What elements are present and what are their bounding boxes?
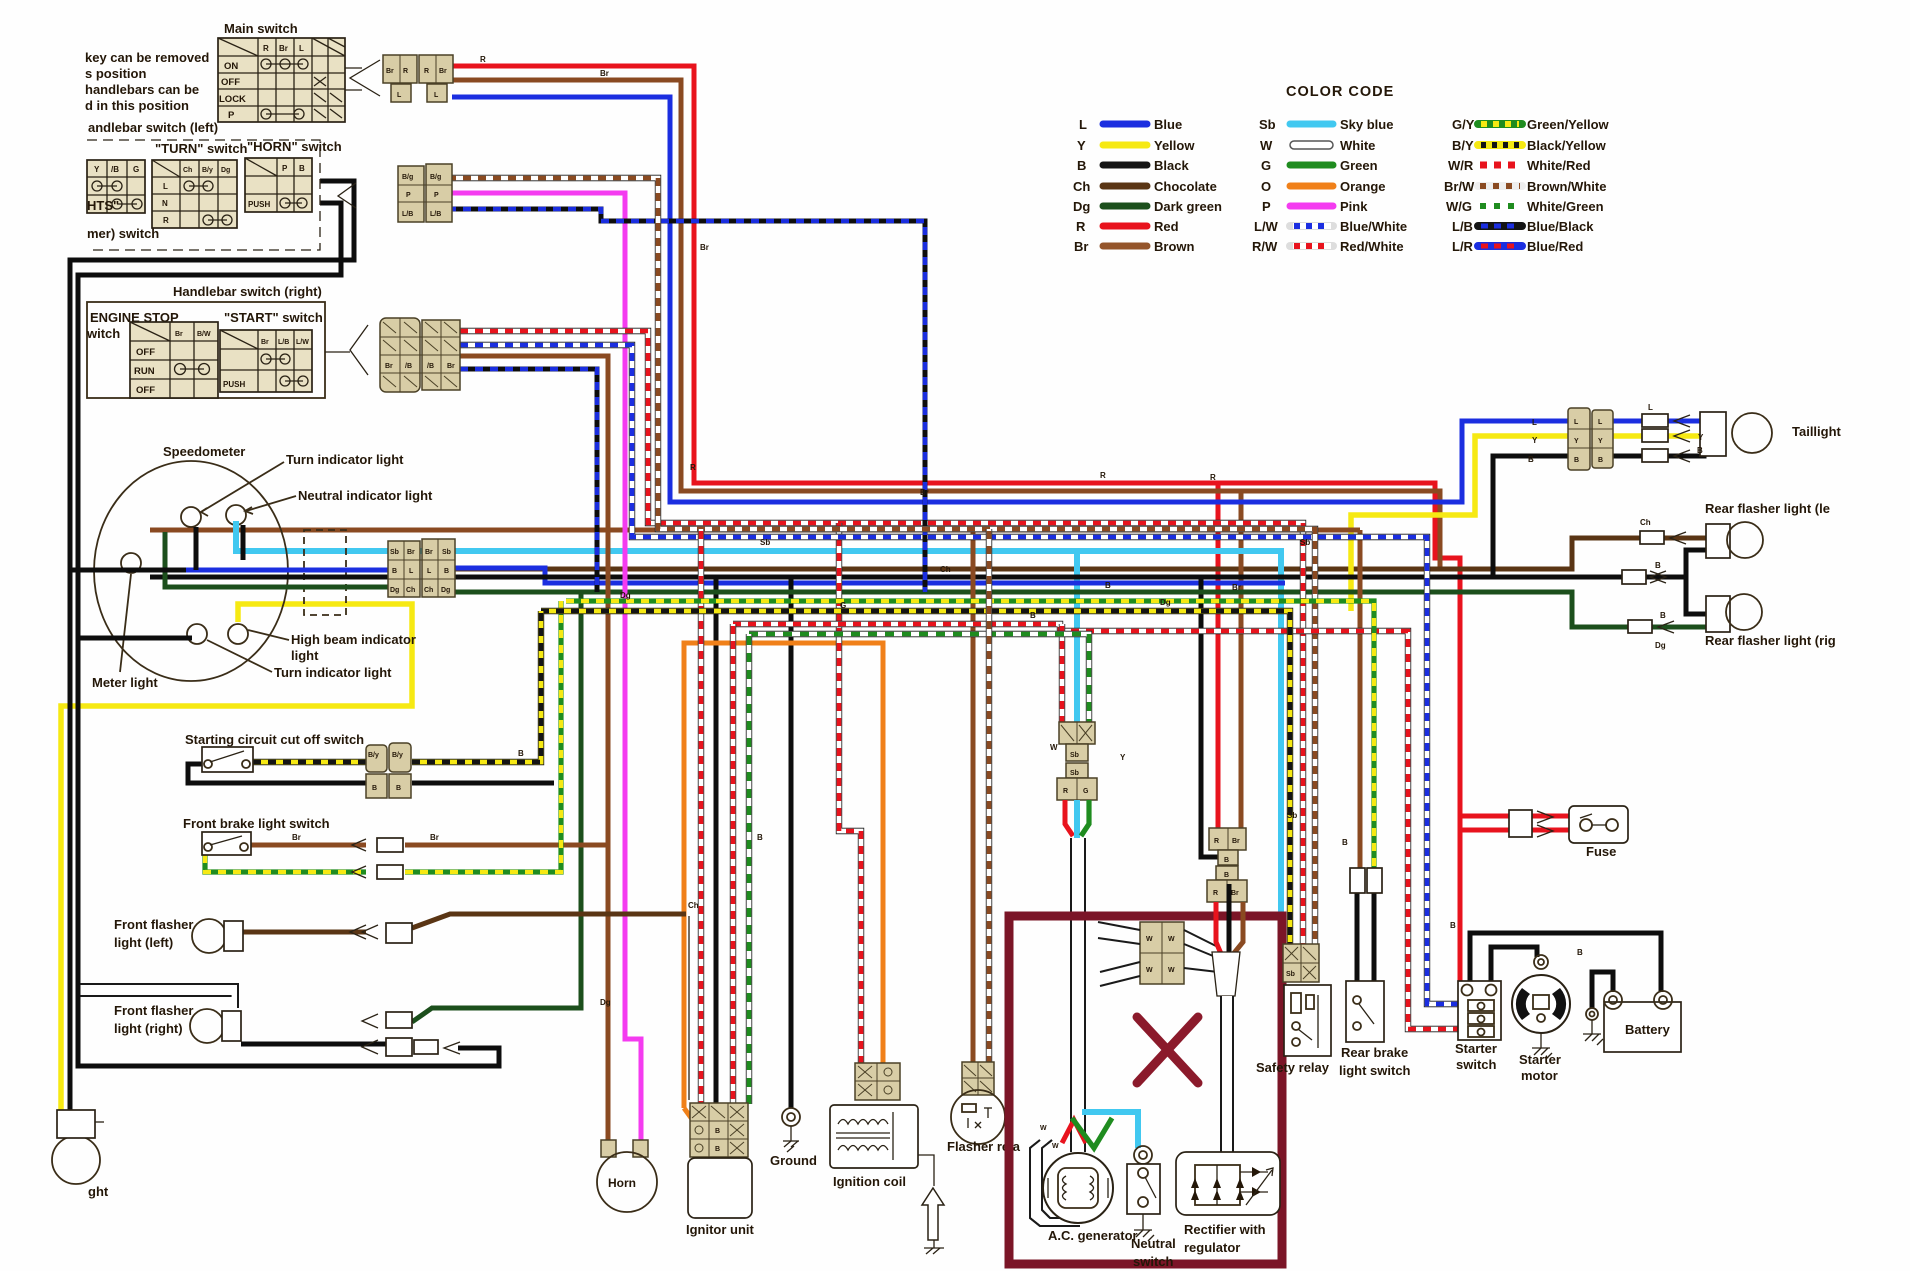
wire W/G drop to ignitor — [746, 634, 752, 1104]
wire yellow taillight feed — [1351, 436, 1568, 611]
svg-text:G: G — [1083, 788, 1089, 795]
wire black starter motor link — [1491, 947, 1537, 981]
svg-text:L/W: L/W — [296, 339, 309, 346]
wire brown drop to generator-box connector Br — [1239, 491, 1244, 831]
svg-text:W: W — [1146, 967, 1153, 974]
black lead into box bundle — [1227, 884, 1232, 952]
svg-text:Dg: Dg — [1073, 199, 1090, 214]
svg-text:G: G — [133, 165, 139, 174]
svg-text:RUN: RUN — [134, 366, 155, 377]
svg-text:Br: Br — [425, 549, 433, 556]
svg-text:Starter: Starter — [1519, 1052, 1561, 1067]
svg-text:Blue/White: Blue/White — [1340, 219, 1407, 234]
svg-text:B: B — [1450, 921, 1456, 930]
svg-text:Ground: Ground — [770, 1153, 817, 1168]
svg-text:Br: Br — [386, 68, 394, 75]
wire dark green drop to front flasher right — [412, 592, 581, 1022]
wire orange ignition feed — [684, 643, 883, 1108]
svg-text:Rear brake: Rear brake — [1341, 1045, 1408, 1060]
wire black starting circuit lower — [188, 764, 366, 783]
svg-text:Ch: Ch — [424, 587, 433, 594]
svg-text:B: B — [1077, 158, 1086, 173]
wire L/B start switch — [460, 369, 597, 592]
svg-text:L/B: L/B — [1452, 219, 1473, 234]
spark plug lead — [918, 1155, 934, 1186]
handlebar switch (right) box — [87, 302, 325, 398]
svg-text:Neutral: Neutral — [1131, 1236, 1176, 1251]
svg-text:Dg: Dg — [600, 998, 611, 1007]
svg-text:Brown: Brown — [1154, 239, 1195, 254]
ignitor connector — [690, 1103, 748, 1157]
svg-text:Horn: Horn — [608, 1176, 636, 1190]
engine stop table — [130, 322, 218, 398]
A.C. generator — [1043, 1153, 1113, 1223]
main switch table — [218, 38, 345, 122]
svg-text:Chocolate: Chocolate — [1154, 179, 1217, 194]
svg-text:B: B — [1574, 457, 1579, 464]
headlight bulb — [52, 1136, 100, 1184]
front brake connectors — [352, 0, 906, 879]
fuse connector — [1509, 810, 1532, 837]
svg-text:Y: Y — [1698, 433, 1704, 442]
svg-text:L: L — [163, 182, 168, 191]
svg-text:COLOR CODE: COLOR CODE — [1286, 84, 1394, 100]
wire black front flasher right lead — [241, 1042, 386, 1047]
generator-box R/Br connector stack — [1207, 828, 1247, 902]
brown lead into box bundle — [1230, 902, 1243, 958]
svg-text:Starter: Starter — [1455, 1041, 1497, 1056]
svg-text:Orange: Orange — [1340, 179, 1386, 194]
speedometer black lead — [150, 575, 388, 580]
rear flasher connector chocolate — [1640, 531, 1664, 544]
svg-text:Rear flasher light (le: Rear flasher light (le — [1705, 501, 1830, 516]
svg-text:Meter light: Meter light — [92, 675, 158, 690]
svg-text:motor: motor — [1521, 1068, 1558, 1083]
svg-text:Black: Black — [1154, 158, 1189, 173]
rear flasher connector green — [1628, 620, 1652, 633]
svg-text:White/Green: White/Green — [1527, 199, 1604, 214]
wire Br/W drop to flasher relay — [986, 529, 992, 1062]
front flasher right connectors — [362, 1012, 460, 1056]
svg-text:B: B — [1598, 457, 1603, 464]
front flasher left connector — [350, 923, 412, 943]
wire chocolate bus to rear flasher light (left) — [455, 538, 1640, 569]
wire R/W drop to ignitor 2 — [730, 624, 736, 1104]
wire red drop to generator-box connector R — [1216, 483, 1221, 831]
svg-text:Ignition coil: Ignition coil — [833, 1174, 906, 1189]
svg-text:switch: switch — [1456, 1057, 1497, 1072]
taillight bulb — [1700, 412, 1726, 456]
ground symbol — [782, 1108, 800, 1152]
wire dark green bus to rear flasher light (right) — [455, 592, 1628, 627]
wire B/Y bus to safety relay — [541, 611, 1290, 944]
neutral switch — [1127, 1146, 1160, 1241]
ignition coil — [830, 1105, 918, 1168]
svg-text:R: R — [1063, 788, 1068, 795]
svg-text:Br: Br — [1232, 838, 1240, 845]
svg-text:L: L — [1598, 419, 1603, 426]
svg-text:Ch: Ch — [688, 901, 699, 910]
svg-text:G/Y: G/Y — [1452, 117, 1475, 132]
wire black bus — [455, 575, 1622, 580]
svg-text:P: P — [228, 110, 235, 121]
svg-text:Ignitor unit: Ignitor unit — [686, 1222, 755, 1237]
black to high-beam bulbs from left verticals — [70, 568, 186, 573]
wire blue speedometer bus — [455, 568, 1285, 583]
svg-text:"HORN" switch: "HORN" switch — [247, 139, 342, 154]
horn — [597, 1152, 657, 1212]
wire black taillight — [1493, 456, 1568, 578]
wire brown engine-stop switch to horn vertical — [460, 356, 608, 1140]
wire pink horn feed — [448, 193, 641, 1140]
svg-text:B/g: B/g — [402, 174, 413, 181]
white loop around generator — [1030, 1140, 1080, 1226]
turn indicator light bulb — [181, 507, 201, 527]
svg-text:Sb: Sb — [1287, 811, 1297, 820]
svg-text:W: W — [1168, 936, 1175, 943]
svg-text:B: B — [1528, 455, 1534, 464]
svg-text:W: W — [1040, 1125, 1047, 1132]
svg-text:Dg: Dg — [441, 587, 450, 594]
svg-text:Br: Br — [407, 549, 415, 556]
svg-text:d in this position: d in this position — [85, 98, 189, 113]
wire chocolate front flasher left link — [243, 930, 366, 935]
svg-text:Dg: Dg — [620, 591, 631, 600]
svg-text:OFF: OFF — [136, 385, 155, 396]
svg-text:White/Red: White/Red — [1527, 158, 1591, 173]
svg-text:Y: Y — [1574, 438, 1579, 445]
starting circuit connector pair — [366, 743, 411, 798]
svg-text:Sb: Sb — [760, 538, 770, 547]
svg-text:R: R — [163, 216, 169, 225]
svg-text:L/R: L/R — [1452, 239, 1474, 254]
svg-text:Ch: Ch — [406, 587, 415, 594]
svg-text:R: R — [263, 44, 269, 53]
sky blue stub below connector — [1074, 800, 1080, 840]
wire brown rear brake drop — [1358, 530, 1363, 870]
svg-text:Br: Br — [1074, 239, 1088, 254]
svg-text:Y: Y — [1532, 436, 1538, 445]
svg-text:Br: Br — [175, 331, 183, 338]
svg-text:L/B: L/B — [278, 339, 289, 346]
wire L/W start switch to starter switch — [460, 345, 1459, 1004]
green zigzag at generator — [1072, 1118, 1112, 1148]
rear brake connector bits — [1350, 868, 1365, 893]
svg-text:B: B — [1660, 611, 1666, 620]
svg-text:Green/Yellow: Green/Yellow — [1527, 117, 1610, 132]
lights dimmer partial table — [87, 160, 145, 213]
wire G/Y front brake branch — [205, 855, 366, 872]
wire W/G bus — [749, 634, 1089, 724]
svg-text:Y: Y — [94, 165, 100, 174]
sky blue stub from neutral bulb — [233, 521, 239, 551]
taillight connector — [1568, 408, 1613, 470]
svg-text:key can be removed: key can be removed — [85, 50, 209, 65]
svg-text:mer) switch: mer) switch — [87, 226, 159, 241]
svg-text:B: B — [1577, 948, 1583, 957]
wire black starter circuit bus — [1470, 933, 1661, 992]
svg-text:Dg: Dg — [221, 167, 230, 174]
wire brown bus (speedometer) — [150, 528, 1360, 533]
svg-text:R/W: R/W — [1252, 239, 1278, 254]
svg-text:light switch: light switch — [1339, 1063, 1411, 1078]
svg-text:/B: /B — [111, 165, 119, 174]
svg-text:handlebars can be: handlebars can be — [85, 82, 199, 97]
speedometer wires: blue — [141, 568, 388, 573]
svg-text:Br: Br — [600, 69, 609, 78]
wire brown front brake light switch — [251, 843, 366, 848]
speedometer black inner stubs — [194, 527, 199, 570]
svg-text:OFF: OFF — [136, 347, 155, 358]
horn connectors — [601, 1140, 616, 1157]
svg-text:Front flasher: Front flasher — [114, 917, 193, 932]
wire R/W lower bus to starter switch — [733, 624, 1459, 1029]
svg-text:light (left): light (left) — [114, 935, 173, 950]
svg-text:L: L — [409, 568, 414, 575]
wire white headlamp dimmer — [80, 984, 238, 1008]
svg-text:Y: Y — [1077, 138, 1086, 153]
svg-text:B/y: B/y — [202, 167, 213, 174]
battery ground — [1583, 1008, 1603, 1045]
svg-text:L/B: L/B — [430, 211, 441, 218]
handlebar-right connector — [325, 318, 460, 392]
svg-text:R: R — [1214, 838, 1219, 845]
svg-text:W: W — [1146, 936, 1153, 943]
svg-text:Taillight: Taillight — [1792, 424, 1842, 439]
wire brown drop to flasher relay — [971, 530, 976, 1062]
svg-text:Br: Br — [447, 363, 455, 370]
svg-text:Front flasher: Front flasher — [114, 1003, 193, 1018]
svg-text:Blue/Black: Blue/Black — [1527, 219, 1594, 234]
svg-text:Dg: Dg — [1160, 598, 1171, 607]
svg-text:L: L — [434, 92, 439, 99]
svg-text:B: B — [1342, 838, 1348, 847]
speedometer connector blocks — [388, 539, 455, 597]
svg-text:P: P — [1262, 199, 1271, 214]
svg-text:B: B — [715, 1146, 720, 1153]
svg-text:Br: Br — [261, 339, 269, 346]
svg-text:R: R — [424, 68, 429, 75]
wire black rear brake switch leads — [1355, 893, 1360, 981]
svg-text:B: B — [299, 164, 305, 173]
wire red main switch feed: main switch to fuse/starter — [452, 66, 1470, 990]
svg-text:Front brake light switch: Front brake light switch — [183, 816, 330, 831]
wire black rear flasher junction — [1645, 550, 1706, 577]
svg-text:Br/W: Br/W — [1444, 179, 1475, 194]
svg-text:O: O — [1261, 179, 1271, 194]
wire brown main switch: to chocolate bus and rear flasher left — [452, 80, 1440, 569]
svg-text:Red/White: Red/White — [1340, 239, 1404, 254]
svg-text:B/g: B/g — [430, 174, 441, 181]
svg-text:Rectifier with: Rectifier with — [1184, 1222, 1266, 1237]
svg-text:L/B: L/B — [402, 211, 413, 218]
svg-text:Turn indicator light: Turn indicator light — [286, 452, 404, 467]
svg-text:Green: Green — [1340, 158, 1378, 173]
svg-text:Sb: Sb — [1286, 971, 1295, 978]
wire orange ignitor diagonal — [684, 1108, 697, 1140]
svg-text:OFF: OFF — [221, 77, 240, 88]
rear brake light switch — [1346, 981, 1384, 1042]
wire red fuse branch upper — [1460, 814, 1510, 819]
svg-text:B: B — [1224, 857, 1229, 864]
wire black battery to ground — [1592, 972, 1613, 1008]
main switch connector — [345, 55, 453, 102]
svg-text:P: P — [406, 192, 411, 199]
svg-text:Y: Y — [1120, 753, 1126, 762]
svg-text:"TURN" switch: "TURN" switch — [155, 141, 248, 156]
taillight inline connectors — [1642, 414, 1668, 427]
red zigzag at generator — [1062, 1120, 1086, 1143]
Sb connector stack — [1057, 722, 1097, 800]
svg-text:B: B — [1655, 561, 1661, 570]
wire Br/W handlebar-left to safety relay — [448, 178, 1315, 944]
white pair to rectifier — [1221, 996, 1233, 1152]
svg-text:W: W — [1168, 967, 1175, 974]
svg-text:Neutral indicator light: Neutral indicator light — [298, 488, 433, 503]
svg-text:regulator: regulator — [1184, 1240, 1240, 1255]
svg-text:Br: Br — [1232, 583, 1241, 592]
svg-text:P: P — [434, 192, 439, 199]
speedometer dark green lead — [165, 532, 388, 587]
svg-text:Fuse: Fuse — [1586, 844, 1616, 859]
starter switch — [1458, 981, 1501, 1040]
svg-text:B: B — [1105, 581, 1111, 590]
wire yellow meter loop to headlight — [61, 604, 412, 1112]
svg-text:L: L — [1532, 418, 1537, 427]
svg-text:Handlebar switch (right): Handlebar switch (right) — [173, 284, 322, 299]
svg-text:LOCK: LOCK — [219, 94, 246, 105]
svg-text:Dark green: Dark green — [1154, 199, 1222, 214]
svg-text:PUSH: PUSH — [223, 380, 245, 389]
battery — [1604, 991, 1681, 1052]
svg-text:R: R — [1100, 471, 1106, 480]
svg-text:Brown/White: Brown/White — [1527, 179, 1606, 194]
svg-text:W/G: W/G — [1446, 199, 1472, 214]
svg-text:L/W: L/W — [1254, 219, 1279, 234]
svg-text:Ch: Ch — [183, 167, 192, 174]
wire sky blue drop to Sb connector — [1074, 551, 1080, 724]
wire R/W start switch to safety relay — [460, 331, 1303, 944]
svg-text:Dg: Dg — [390, 587, 399, 594]
svg-text:light: light — [291, 648, 319, 663]
svg-text:Speedometer: Speedometer — [163, 444, 245, 459]
safety relay — [1284, 985, 1331, 1056]
wire blue main switch to taillight — [452, 97, 1568, 502]
svg-text:White: White — [1340, 138, 1375, 153]
svg-text:B: B — [444, 568, 449, 575]
wire R/W branch to ignition coil — [839, 523, 861, 1063]
svg-text:Sb: Sb — [1070, 770, 1079, 777]
speedometer dial — [94, 461, 288, 681]
svg-text:R: R — [1210, 473, 1216, 482]
svg-text:G: G — [1261, 158, 1271, 173]
svg-text:Br: Br — [292, 833, 301, 842]
svg-text:Blue/Red: Blue/Red — [1527, 239, 1583, 254]
svg-text:W: W — [1050, 743, 1058, 752]
svg-text:B: B — [372, 785, 377, 792]
box-top W connector — [1098, 922, 1218, 986]
svg-text:Dg: Dg — [1655, 641, 1666, 650]
cyan jumper to neutral switch — [1082, 1112, 1138, 1148]
svg-text:R: R — [1213, 890, 1218, 897]
wire red fuse branch lower — [1460, 828, 1510, 833]
svg-text:ght: ght — [88, 1184, 109, 1199]
svg-text:Ch: Ch — [940, 565, 951, 574]
svg-text:G: G — [840, 601, 846, 610]
rear flasher light right — [1706, 596, 1730, 632]
wire blue taillight connector to bulb — [1612, 419, 1642, 424]
svg-text:Black/Yellow: Black/Yellow — [1527, 138, 1607, 153]
svg-text:R: R — [690, 463, 696, 472]
svg-text:N: N — [162, 199, 168, 208]
svg-text:L: L — [397, 92, 402, 99]
neutral indicator light bulb — [226, 505, 246, 525]
svg-text:B: B — [1030, 611, 1036, 620]
ignitor unit body — [688, 1158, 752, 1218]
svg-text:B/W: B/W — [197, 331, 211, 338]
svg-text:B: B — [757, 833, 763, 842]
svg-text:L: L — [1079, 117, 1087, 132]
svg-text:W/R: W/R — [1448, 158, 1474, 173]
svg-text:Br: Br — [920, 488, 929, 497]
svg-text:Rear flasher light (rig: Rear flasher light (rig — [1705, 633, 1836, 648]
svg-text:B: B — [1224, 872, 1229, 879]
svg-text:Sb: Sb — [390, 549, 399, 556]
wire red fuse stubs to fuse box — [1532, 814, 1570, 819]
svg-text:A.C. generator: A.C. generator — [1048, 1228, 1138, 1243]
wire black bus drop to generator-box connector B — [1201, 577, 1221, 857]
rectifier with regulator — [1176, 1152, 1280, 1215]
svg-text:R: R — [480, 55, 486, 64]
wire L/B handlebar-left — [448, 209, 925, 592]
svg-text:L: L — [1648, 403, 1653, 412]
svg-text:Sb: Sb — [1300, 538, 1310, 547]
green stub below connector — [1081, 800, 1089, 836]
svg-text:HTS": HTS" — [87, 198, 119, 213]
turn indicator light bulb 2 — [187, 624, 207, 644]
svg-text:B: B — [396, 785, 401, 792]
speedometer inner dashed box — [304, 530, 346, 615]
wire black handlebar-left lower — [78, 203, 499, 1066]
svg-text:/B: /B — [427, 363, 434, 370]
wire R/W drop to Sb connector — [1059, 624, 1065, 724]
svg-text:P: P — [282, 164, 288, 173]
svg-text:B: B — [715, 1128, 720, 1135]
svg-text:Ch: Ch — [1073, 179, 1090, 194]
svg-text:witch: witch — [86, 326, 120, 341]
svg-text:W: W — [1260, 138, 1273, 153]
rear flasher black connector — [1622, 570, 1646, 584]
red lead into box bundle — [1216, 902, 1222, 956]
svg-text:/B: /B — [405, 363, 412, 370]
svg-text:Safety relay: Safety relay — [1256, 1060, 1330, 1075]
svg-text:Battery: Battery — [1625, 1022, 1671, 1037]
svg-text:Br: Br — [430, 833, 439, 842]
svg-text:R: R — [1076, 219, 1086, 234]
svg-text:W: W — [1052, 1143, 1059, 1150]
svg-text:Br: Br — [700, 243, 709, 252]
svg-text:Sky blue: Sky blue — [1340, 117, 1393, 132]
safety relay connector — [1283, 944, 1319, 982]
svg-text:B: B — [1697, 446, 1703, 455]
ignition coil connector — [855, 1063, 900, 1100]
white boot — [1212, 952, 1240, 996]
wire sky blue bus — [236, 521, 1281, 912]
svg-text:B/y: B/y — [392, 752, 403, 759]
svg-text:PUSH: PUSH — [248, 200, 270, 209]
svg-text:Sb: Sb — [1070, 752, 1079, 759]
meter light bulb — [121, 553, 141, 573]
